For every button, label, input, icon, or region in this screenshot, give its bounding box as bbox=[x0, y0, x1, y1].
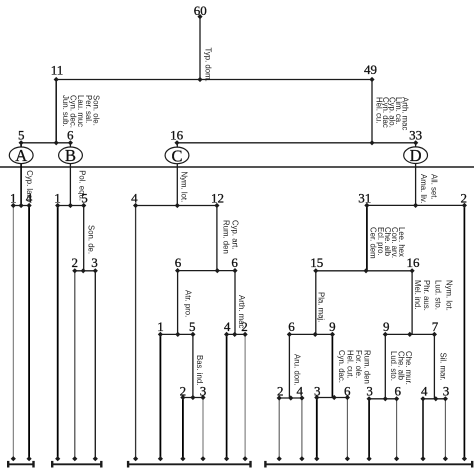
wire: leaf drop at x=316.8 bbox=[316, 398, 318, 459]
svg-text:5: 5 bbox=[189, 319, 196, 334]
node dot: leaf4 top bbox=[224, 332, 229, 337]
svg-text:60: 60 bbox=[194, 3, 207, 18]
node dot: junction 15 bbox=[313, 332, 318, 337]
bracket group C bbox=[128, 461, 250, 468]
wire: bar 2-4 under 6d bbox=[279, 397, 302, 399]
svg-text:49: 49 bbox=[364, 62, 377, 77]
svg-text:C: C bbox=[171, 146, 182, 165]
wire: leaf drop at x=182.9 bbox=[182, 398, 184, 459]
node circle C bbox=[165, 147, 189, 164]
svg-text:6: 6 bbox=[344, 383, 351, 398]
svg-text:Mel. ind.: Mel. ind. bbox=[413, 280, 422, 309]
wire: leaf drop at x=226.6 bbox=[226, 334, 228, 458]
node dot: junction 16b bbox=[407, 332, 412, 337]
node dot: leaf end bbox=[93, 456, 98, 461]
node dot: leaf end bbox=[345, 456, 350, 461]
svg-text:A: A bbox=[15, 146, 27, 165]
wire: bar 3-6 under 9a bbox=[317, 397, 348, 399]
svg-text:4: 4 bbox=[131, 190, 138, 205]
svg-text:3: 3 bbox=[200, 383, 207, 398]
wire: bar B (1-5) bbox=[58, 205, 84, 207]
node dot: junction 9b bbox=[383, 396, 388, 401]
node dot: junction 9a bbox=[332, 395, 337, 400]
wire: leaf drop at x=29.1 bbox=[28, 206, 30, 459]
node dot: junction A bbox=[19, 203, 24, 208]
node dot: node7 top bbox=[432, 332, 437, 337]
wire: full-width horizontal rule bbox=[0, 166, 474, 168]
svg-text:9: 9 bbox=[329, 319, 336, 334]
node dot: leaf end bbox=[367, 456, 372, 461]
node dot: leaf1 top bbox=[11, 203, 16, 208]
node dot: leaf2 top bbox=[180, 395, 185, 400]
wire: stem node7 bbox=[433, 334, 435, 398]
svg-text:3: 3 bbox=[314, 383, 321, 398]
svg-text:3: 3 bbox=[91, 255, 98, 270]
node dot: leaf3 top bbox=[200, 395, 205, 400]
node dot: node 11 bbox=[54, 77, 59, 82]
node dot: leaf end bbox=[277, 456, 282, 461]
svg-text:Nym. lot.: Nym. lot. bbox=[179, 172, 188, 203]
node dot: leaf2 top bbox=[277, 395, 282, 400]
wire: bar 16-33 bbox=[177, 142, 416, 144]
wire: stem of node 49 bbox=[371, 80, 373, 143]
svg-text:4: 4 bbox=[421, 384, 428, 399]
wire: leaf drop at x=279.2 bbox=[278, 398, 280, 459]
node dot: junction 5c bbox=[190, 395, 195, 400]
node dot: leaf4 top bbox=[133, 203, 138, 208]
wire: stem node15 bbox=[315, 271, 317, 335]
wire: stem node9a bbox=[331, 334, 333, 397]
node dot: root junction bbox=[197, 77, 202, 82]
wire: bar 2-3 under 5b bbox=[75, 270, 96, 272]
node dot: leaf6 top bbox=[394, 396, 399, 401]
node dot: node9b top bbox=[383, 332, 388, 337]
wire: stem node5b bbox=[83, 206, 85, 271]
wire: stem node6R bbox=[234, 271, 236, 335]
node dot: leaf end bbox=[394, 456, 399, 461]
svg-text:Ama. liv.: Ama. liv. bbox=[419, 174, 428, 203]
node dot: node12 top bbox=[214, 203, 219, 208]
wire: stem node16b bbox=[411, 271, 413, 335]
svg-text:Pol. equ.: Pol. equ. bbox=[77, 170, 86, 201]
node dot: junction 11 bbox=[54, 140, 59, 145]
wire: leaf drop at x=369.1 bbox=[368, 399, 370, 459]
node dot: leaf end bbox=[420, 456, 425, 461]
node dot: node5c top bbox=[190, 332, 195, 337]
wire: bar D (31-2) bbox=[367, 204, 465, 206]
svg-text:Bas. ind.: Bas. ind. bbox=[195, 355, 204, 385]
node dot: junction 6L bbox=[175, 332, 180, 337]
node dot: leaf3 top bbox=[367, 396, 372, 401]
svg-text:9: 9 bbox=[383, 319, 390, 334]
wire: leaf drop at x=57.7 bbox=[57, 206, 59, 459]
svg-text:11: 11 bbox=[51, 62, 64, 77]
wire: bar 4-3 under 7 bbox=[423, 398, 445, 400]
node dot: leaf2 top bbox=[462, 203, 467, 208]
wire: leaf drop at x=347.4 bbox=[346, 398, 348, 459]
wire: stem node9b bbox=[384, 334, 386, 398]
wire: leaf drop at x=13.3 bbox=[12, 206, 14, 459]
svg-text:Phr. aus.: Phr. aus. bbox=[422, 280, 431, 311]
bracket group D bbox=[265, 461, 472, 468]
svg-text:31: 31 bbox=[358, 191, 371, 206]
node dot: junction D bbox=[413, 203, 418, 208]
svg-text:All. set.: All. set. bbox=[430, 174, 439, 200]
svg-text:33: 33 bbox=[409, 128, 422, 143]
wire: stem C bbox=[176, 143, 178, 206]
node dot: node 33 bbox=[413, 140, 418, 145]
svg-text:12: 12 bbox=[211, 190, 224, 205]
bracket group A bbox=[8, 461, 33, 468]
svg-text:Hel. cu.: Hel. cu. bbox=[375, 97, 384, 123]
svg-text:2: 2 bbox=[180, 383, 187, 398]
node dot: leaf3 top bbox=[443, 396, 448, 401]
node dot: leaf6 top bbox=[345, 395, 350, 400]
node dot: junction 49 bbox=[369, 140, 374, 145]
node dot: leaf end bbox=[133, 456, 138, 461]
node dot: node9a top bbox=[330, 332, 335, 337]
wire: leaf drop at x=445.4 bbox=[444, 399, 446, 459]
svg-text:2: 2 bbox=[277, 383, 284, 398]
wire: stem node6L bbox=[177, 271, 179, 335]
svg-text:5: 5 bbox=[18, 128, 25, 143]
svg-text:4: 4 bbox=[224, 319, 231, 334]
svg-text:Cer. dem: Cer. dem bbox=[369, 227, 378, 259]
wire: leaf drop at x=464.4 bbox=[463, 205, 465, 458]
node dot: node6d top bbox=[287, 332, 292, 337]
wire: leaf drop at x=301.9 bbox=[301, 398, 303, 459]
svg-text:Lud. sto.: Lud. sto. bbox=[389, 351, 398, 381]
node dot: leaf end bbox=[200, 456, 205, 461]
node dot: leaf end bbox=[27, 456, 32, 461]
svg-text:6: 6 bbox=[231, 255, 238, 270]
svg-text:Aru. don.: Aru. don. bbox=[293, 354, 302, 386]
bracket group B bbox=[52, 461, 101, 468]
node dot: leaf end bbox=[180, 456, 185, 461]
svg-text:Cyn. dac.: Cyn. dac. bbox=[337, 350, 346, 383]
wire: stem A bbox=[20, 143, 22, 206]
node circle D bbox=[404, 147, 428, 164]
node dot: node 60 top bbox=[197, 14, 202, 19]
node dot: leaf end bbox=[462, 456, 467, 461]
node dot: leaf4 top bbox=[299, 395, 304, 400]
wire: bar 4-2 under 6R bbox=[227, 333, 246, 335]
svg-text:16: 16 bbox=[170, 128, 184, 143]
svg-text:Jun. sub.: Jun. sub. bbox=[61, 95, 70, 127]
wire: bar 2-3 under 5c bbox=[183, 397, 203, 399]
svg-text:16: 16 bbox=[407, 255, 421, 270]
node dot: junction 5b bbox=[81, 268, 86, 273]
wire: leaf drop at x=74.8 bbox=[74, 271, 76, 459]
svg-text:Pla. maj.: Pla. maj. bbox=[317, 292, 326, 322]
node dot: node 6 bbox=[68, 140, 73, 145]
node dot: node15 top bbox=[313, 268, 318, 273]
svg-text:Cyp. art.: Cyp. art. bbox=[231, 220, 240, 249]
svg-text:Cyp. laev: Cyp. laev bbox=[25, 170, 34, 203]
node dot: junction C bbox=[175, 203, 180, 208]
svg-text:D: D bbox=[410, 146, 422, 165]
wire: stem node5c bbox=[192, 334, 194, 397]
node dot: node6L top bbox=[175, 268, 180, 273]
wire: stem node31 bbox=[366, 205, 368, 270]
wire: stem node12 bbox=[216, 206, 218, 271]
node dot: junction 7 bbox=[433, 396, 438, 401]
node dot: leaf3 top bbox=[314, 395, 319, 400]
node dot: junction 6R bbox=[232, 332, 237, 337]
wire: leaf drop at x=245.1 bbox=[244, 334, 246, 458]
wire: leaf drop at x=203.0 bbox=[202, 398, 204, 459]
node circle A bbox=[9, 147, 33, 164]
wire: bar 6-6 bbox=[178, 270, 235, 272]
wire: bar 9-7 under 16b bbox=[385, 333, 434, 335]
node dot: node 49 bbox=[369, 77, 374, 82]
node dot: leaf end bbox=[299, 456, 304, 461]
wire: leaf drop at x=396.6 bbox=[396, 399, 398, 459]
svg-text:6: 6 bbox=[288, 319, 295, 334]
wire: leaf drop at x=135.6 bbox=[135, 206, 137, 459]
svg-text:1: 1 bbox=[54, 190, 61, 205]
node dot: junction 31 bbox=[363, 268, 368, 273]
svg-text:Typ. dom.: Typ. dom. bbox=[204, 48, 213, 82]
svg-text:Son. de.: Son. de. bbox=[87, 225, 96, 254]
svg-text:Sil. mar.: Sil. mar. bbox=[439, 353, 448, 381]
wire: stem D bbox=[415, 143, 417, 206]
svg-text:6: 6 bbox=[67, 128, 74, 143]
wire: bar 3-6 under 9b bbox=[369, 398, 397, 400]
node dot: junction 6d bbox=[288, 395, 293, 400]
wire: stem node6d bbox=[288, 334, 290, 398]
node dot: leaf2 top bbox=[243, 332, 248, 337]
node dot: node 5 bbox=[19, 140, 24, 145]
wire: bar 1-5 under 6L bbox=[160, 333, 193, 335]
wire: stem B bbox=[69, 143, 71, 206]
svg-text:15: 15 bbox=[310, 255, 323, 270]
node dot: leaf end bbox=[224, 456, 229, 461]
node dot: leaf end bbox=[11, 456, 16, 461]
wire: root bar 11-49 bbox=[56, 79, 372, 81]
svg-text:6: 6 bbox=[395, 384, 402, 399]
node dot: leaf end bbox=[55, 456, 60, 461]
svg-text:2: 2 bbox=[460, 191, 467, 206]
node dot: leaf1 top bbox=[55, 203, 60, 208]
node dot: leaf4 top bbox=[420, 396, 425, 401]
node dot: leaf end bbox=[72, 456, 77, 461]
node dot: leaf end bbox=[443, 456, 448, 461]
wire: bar A (1-4) bbox=[13, 205, 29, 207]
node dot: leaf2 top bbox=[72, 268, 77, 273]
svg-text:B: B bbox=[65, 146, 76, 165]
node circle B bbox=[59, 147, 83, 164]
node dot: node6R top bbox=[232, 268, 237, 273]
wire: stem of node 11 bbox=[55, 80, 57, 143]
wire: stem of node 60 bbox=[199, 17, 201, 80]
node dot: node5 top bbox=[81, 203, 86, 208]
node dot: junction B bbox=[68, 203, 73, 208]
node dot: node16b top bbox=[410, 268, 415, 273]
node dot: leaf4 top bbox=[27, 203, 32, 208]
wire: bar 6-9 under 15 bbox=[289, 333, 332, 335]
svg-text:7: 7 bbox=[432, 319, 439, 334]
wire: bar 15-16 bbox=[316, 270, 412, 272]
wire: bar C (4-12) bbox=[136, 205, 217, 207]
node dot: junction 12 bbox=[215, 268, 220, 273]
node dot: node 16 bbox=[174, 140, 179, 145]
svg-text:Nym. lot.: Nym. lot. bbox=[445, 280, 454, 311]
svg-text:Rum. den: Rum. den bbox=[221, 220, 230, 254]
svg-text:Atr. pro.: Atr. pro. bbox=[184, 290, 193, 317]
node dot: node31 top bbox=[364, 203, 369, 208]
wire: leaf drop at x=160.4 bbox=[159, 334, 161, 458]
node dot: leaf end bbox=[314, 456, 319, 461]
wire: leaf drop at x=423.0 bbox=[422, 399, 424, 459]
svg-text:6: 6 bbox=[175, 255, 182, 270]
node dot: leaf end bbox=[243, 456, 248, 461]
node dot: leaf1 top bbox=[158, 332, 163, 337]
svg-text:2: 2 bbox=[72, 255, 79, 270]
node dot: leaf3 top bbox=[93, 268, 98, 273]
svg-text:3: 3 bbox=[366, 384, 373, 399]
svg-text:1: 1 bbox=[10, 190, 17, 205]
svg-text:3: 3 bbox=[443, 384, 450, 399]
svg-text:Arth. mac: Arth. mac bbox=[237, 295, 246, 328]
wire: bar 5-6 bbox=[21, 142, 70, 144]
svg-text:Lud. sto.: Lud. sto. bbox=[434, 280, 443, 310]
svg-text:1: 1 bbox=[157, 319, 164, 334]
wire: leaf drop at x=95.3 bbox=[94, 271, 96, 459]
node dot: leaf end bbox=[158, 456, 163, 461]
